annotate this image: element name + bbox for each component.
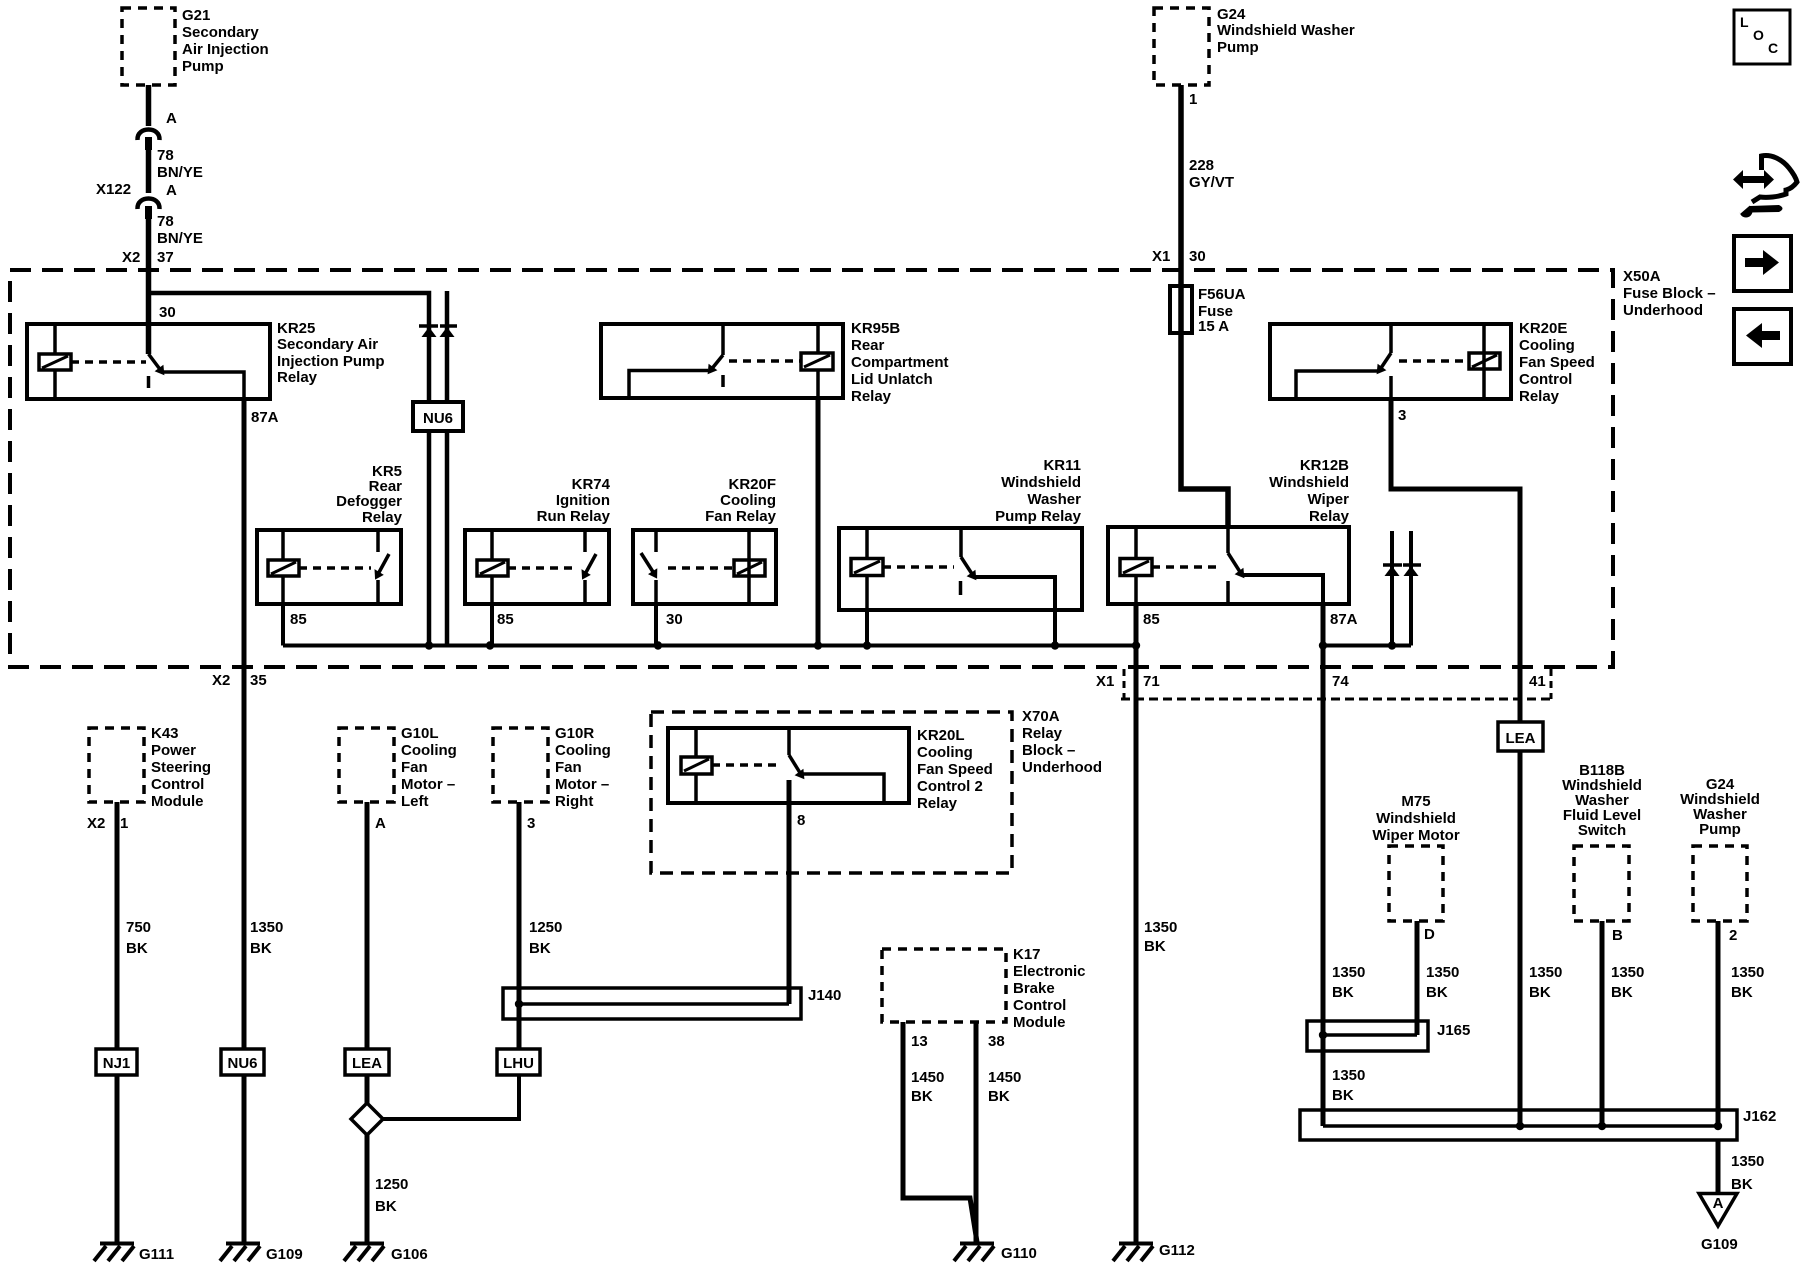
svg-text:BK: BK [1731,984,1753,1001]
wire G24 pump feed 228 GY/VT through fuse to KR12B [1181,85,1228,527]
svg-text:Fan Relay: Fan Relay [705,508,777,525]
svg-text:BK: BK [988,1088,1010,1105]
svg-text:Underhood: Underhood [1623,302,1703,319]
svg-text:Control: Control [151,776,204,793]
svg-text:BK: BK [1611,984,1633,1001]
ground G106 [344,1244,384,1262]
K17 Electronic Brake Control Module dashed box [882,949,1006,1022]
svg-text:1: 1 [120,815,128,832]
wire 78 BN/YE segment 3 into KR25 pin 30 [146,219,152,354]
wire fuse block bus [283,644,1136,648]
wire KR20E pin 3 to X1 41 through LEA to J162 [1391,399,1520,1126]
svg-text:Underhood: Underhood [1022,759,1102,776]
ground G111 [94,1244,134,1262]
svg-text:Block –: Block – [1022,742,1075,759]
svg-text:35: 35 [250,672,267,689]
svg-text:BK: BK [375,1198,397,1215]
svg-text:J165: J165 [1437,1022,1470,1039]
K43 Power Steering Control Module dashed box [89,728,144,802]
svg-text:A: A [1713,1195,1724,1212]
svg-text:1350: 1350 [1731,1153,1764,1170]
svg-text:Cooling: Cooling [1519,337,1575,354]
relay KR25 Secondary Air Injection Pump Relay [27,324,270,399]
svg-text:BK: BK [250,940,272,957]
wire G21 feed 78 BN/YE segment 1 [146,85,152,126]
X1 connector sub-box dashes [1121,698,1554,701]
wire splice arrow line 2 [1409,531,1413,646]
svg-text:Wiper Motor: Wiper Motor [1372,827,1460,844]
svg-text:Pump: Pump [182,58,224,75]
svg-text:J140: J140 [808,987,841,1004]
wire KR25 87A output to G109 ground [242,399,247,1242]
svg-text:Relay: Relay [1519,388,1560,405]
svg-text:71: 71 [1143,673,1160,690]
svg-text:KR74: KR74 [572,476,611,493]
RELAYS [27,324,1511,803]
svg-text:30: 30 [666,611,683,628]
svg-text:BK: BK [1332,984,1354,1001]
svg-text:KR25: KR25 [277,320,315,337]
svg-text:1350: 1350 [250,919,283,936]
splice arrows right of KR12B [1383,565,1421,576]
svg-text:1250: 1250 [529,919,562,936]
svg-text:Wiper: Wiper [1307,491,1349,508]
splice LEA label box lower [345,1049,389,1075]
B118B Windshield Washer Fluid Level Switch dashed box [1574,846,1629,921]
svg-text:87A: 87A [251,409,279,426]
svg-text:D: D [1424,926,1435,943]
svg-text:A: A [166,110,177,127]
svg-text:30: 30 [159,304,176,321]
svg-text:15 A: 15 A [1198,318,1229,335]
svg-text:1350: 1350 [1611,964,1644,981]
svg-text:G106: G106 [391,1246,428,1263]
svg-text:G10L: G10L [401,725,439,742]
svg-text:Compartment: Compartment [851,354,949,371]
svg-text:LHU: LHU [503,1055,534,1072]
svg-text:Brake: Brake [1013,980,1055,997]
svg-text:Fuse Block –: Fuse Block – [1623,285,1716,302]
svg-text:G111: G111 [139,1246,174,1263]
wire 87A branch to splice arrows [1323,644,1411,648]
BORDERS [10,8,1747,1022]
junction dot J140 [515,1000,523,1008]
connector J162 [1300,1110,1737,1140]
wire G10L pin A to diamond splice [365,802,370,1104]
svg-text:Cooling: Cooling [720,492,776,509]
wire KR74 85 pin [490,604,494,646]
svg-text:BK: BK [1144,938,1166,955]
svg-text:Power: Power [151,742,196,759]
svg-text:KR20E: KR20E [1519,320,1567,337]
svg-text:BK: BK [1332,1087,1354,1104]
svg-text:Injection Pump: Injection Pump [277,353,385,370]
svg-text:X122: X122 [96,181,131,198]
svg-text:L: L [1740,14,1749,30]
X70A Relay Block Underhood dashed border [651,712,1012,873]
svg-text:74: 74 [1332,673,1349,690]
svg-text:G109: G109 [1701,1236,1738,1253]
wire G10R pin 3 through J140 to LHU [517,802,522,1075]
relay KR20F Cooling Fan Relay [633,530,776,604]
ground G110 [954,1244,994,1262]
splice NJ1 label box [96,1049,137,1075]
svg-text:G109: G109 [266,1246,303,1263]
svg-text:KR20F: KR20F [728,476,776,493]
svg-text:Air Injection: Air Injection [182,41,269,58]
svg-text:1350: 1350 [1426,964,1459,981]
wire splice arrow line 1 [1390,531,1394,646]
G10L Cooling Fan Motor Left dashed box [339,728,394,802]
svg-text:85: 85 [1143,611,1160,628]
wire KR95B coil pin to bus [816,398,821,646]
wire K17 pin 38 1450 BK to G110 [974,1022,979,1242]
svg-text:Fan Speed: Fan Speed [1519,354,1595,371]
svg-text:LEA: LEA [1506,730,1536,747]
svg-text:Windshield: Windshield [1001,474,1081,491]
service info icon (arrow hand wrench) [1733,156,1797,218]
svg-text:NU6: NU6 [423,410,453,427]
svg-text:A: A [375,815,386,832]
svg-text:Windshield Washer: Windshield Washer [1217,22,1355,39]
splice NU6 label box [413,402,463,431]
svg-text:LEA: LEA [352,1055,382,1072]
ICONS [1733,10,1797,364]
svg-text:X50A: X50A [1623,268,1661,285]
svg-text:Electronic: Electronic [1013,963,1086,980]
svg-text:BK: BK [911,1088,933,1105]
svg-text:G24: G24 [1217,6,1246,23]
svg-text:Motor –: Motor – [401,776,455,793]
wire KR20F 30 pin [654,604,658,646]
svg-text:1350: 1350 [1731,964,1764,981]
wire KR11 switch output to bus [1053,610,1057,646]
svg-text:78: 78 [157,213,174,230]
junction dot J165 [1319,1031,1327,1039]
svg-text:Windshield: Windshield [1269,474,1349,491]
junction dots J162 [1516,1122,1524,1130]
relay KR11 Windshield Washer Pump Relay [839,528,1082,610]
svg-text:41: 41 [1529,673,1546,690]
wire K43 750 BK to G111 ground [115,802,120,1242]
svg-text:X1: X1 [1152,248,1170,265]
svg-text:Pump: Pump [1217,39,1259,56]
wire top bus to NU6 lines [149,293,430,646]
svg-text:Right: Right [555,793,593,810]
svg-text:3: 3 [527,815,535,832]
svg-text:Left: Left [401,793,429,810]
svg-text:X2: X2 [122,249,140,266]
wire 78 BN/YE segment 2 [146,150,152,193]
svg-text:O: O [1753,27,1764,43]
svg-text:BK: BK [1426,984,1448,1001]
svg-text:KR20L: KR20L [917,727,965,744]
CONNECTORS [96,286,1737,1140]
wire KR20L pin 8 down to J140 [787,780,792,1004]
svg-text:BK: BK [529,940,551,957]
svg-text:K43: K43 [151,725,179,742]
svg-text:BN/YE: BN/YE [157,164,203,181]
svg-text:X70A: X70A [1022,708,1060,725]
svg-text:X2: X2 [212,672,230,689]
svg-text:1350: 1350 [1332,1067,1365,1084]
svg-text:1450: 1450 [988,1069,1021,1086]
svg-text:BK: BK [1529,984,1551,1001]
svg-text:228: 228 [1189,157,1214,174]
connector J140 [503,988,801,1019]
svg-text:M75: M75 [1401,793,1430,810]
svg-text:85: 85 [497,611,514,628]
svg-text:Relay: Relay [362,509,403,526]
G10R Cooling Fan Motor Right dashed box [493,728,548,802]
svg-text:KR11: KR11 [1043,457,1081,474]
svg-text:Rear: Rear [851,337,885,354]
svg-text:BN/YE: BN/YE [157,230,203,247]
svg-text:Switch: Switch [1578,822,1626,839]
svg-text:2: 2 [1729,927,1737,944]
ground G109 left [220,1244,260,1262]
svg-text:Pump: Pump [1699,821,1741,838]
relay KR74 Ignition Run Relay [465,530,609,604]
svg-text:C: C [1768,40,1778,56]
svg-text:B: B [1612,927,1623,944]
LOC box icon [1734,10,1790,64]
svg-text:Control: Control [1519,371,1572,388]
svg-text:G10R: G10R [555,725,594,742]
svg-text:F56UA: F56UA [1198,286,1246,303]
connector X122 lower arc A [137,199,159,210]
M75 Windshield Wiper Motor dashed box [1389,846,1443,921]
svg-text:K17: K17 [1013,946,1041,963]
svg-text:Module: Module [1013,1014,1066,1031]
svg-text:X1: X1 [1096,673,1114,690]
svg-text:G21: G21 [182,7,210,24]
ground G109 triangle (bottom right) [1699,1194,1737,1227]
svg-text:G112: G112 [1159,1242,1195,1259]
svg-text:Lid Unlatch: Lid Unlatch [851,371,933,388]
svg-text:Fan: Fan [401,759,428,776]
svg-text:Relay: Relay [917,795,958,812]
svg-text:GY/VT: GY/VT [1189,174,1234,191]
svg-text:Pump Relay: Pump Relay [995,508,1082,525]
svg-text:KR12B: KR12B [1300,457,1349,474]
svg-text:1350: 1350 [1529,964,1562,981]
svg-text:78: 78 [157,147,174,164]
wire branch diamond to LHU [382,1075,519,1119]
svg-text:BK: BK [126,940,148,957]
svg-text:Washer: Washer [1027,491,1081,508]
svg-text:Relay: Relay [851,388,892,405]
relay KR5 Rear Defogger Relay [257,530,401,604]
diamond splice below LEA [351,1103,383,1135]
svg-text:Control 2: Control 2 [917,778,983,795]
svg-text:Defogger: Defogger [336,493,402,510]
G24 Windshield Washer Pump dashed box (top) [1154,8,1209,85]
wire B118B pin B to J162 [1600,921,1605,1126]
splice LEA label box upper [1498,722,1543,751]
svg-text:3: 3 [1398,407,1406,424]
svg-text:1350: 1350 [1144,919,1177,936]
svg-text:Motor –: Motor – [555,776,609,793]
svg-text:Relay: Relay [1309,508,1350,525]
splice arrows above NU6 [419,326,457,337]
svg-text:J162: J162 [1743,1108,1776,1125]
svg-text:BK: BK [1731,1176,1753,1193]
wire G24 pin 2 to J162 [1716,921,1721,1126]
svg-text:Cooling: Cooling [401,742,457,759]
wire KR5 85 pin [281,604,285,646]
relay KR20L Cooling Fan Speed Control 2 Relay [668,728,909,803]
G24 Windshield Washer Pump dashed box (bottom) [1693,846,1747,921]
svg-text:Relay: Relay [1022,725,1063,742]
svg-text:X2: X2 [87,815,105,832]
svg-text:85: 85 [290,611,307,628]
wire second NU6 line [445,291,450,646]
ground G112 [1113,1244,1153,1262]
svg-text:Ignition: Ignition [556,492,610,509]
svg-text:Cooling: Cooling [555,742,611,759]
svg-text:1250: 1250 [375,1176,408,1193]
wire KR12B 87A pin down to J162 [1321,604,1326,1126]
svg-text:NU6: NU6 [227,1055,257,1072]
junction dots on fuse block bus [425,641,433,649]
svg-text:Secondary: Secondary [182,24,259,41]
relay KR95B Rear Compartment Lid Unlatch Relay [601,324,843,398]
svg-text:Run Relay: Run Relay [537,508,611,525]
relay KR12B Windshield Wiper Relay [1108,527,1349,604]
svg-text:30: 30 [1189,248,1206,265]
svg-text:Fan Speed: Fan Speed [917,761,993,778]
svg-text:87A: 87A [1330,611,1358,628]
fuse F56UA 15 A [1170,286,1192,333]
relay KR20E Cooling Fan Speed Control Relay [1270,324,1511,399]
wire KR12B 85 pin down to G112 ground [1134,604,1139,1242]
wire J162 to G109 triangle ground [1716,1140,1721,1194]
svg-text:Fan: Fan [555,759,582,776]
wire K17 pin 13 1450 BK to G110 [903,1022,977,1242]
svg-text:13: 13 [911,1033,928,1050]
svg-text:Steering: Steering [151,759,211,776]
svg-text:1: 1 [1189,91,1197,108]
splice LHU label box [497,1049,540,1075]
svg-text:Secondary Air: Secondary Air [277,336,378,353]
X50A Fuse Block Underhood dashed border [10,270,1613,667]
svg-text:Control: Control [1013,997,1066,1014]
svg-text:8: 8 [797,812,805,829]
wire KR11 85 pin [865,610,869,646]
svg-text:Relay: Relay [277,369,318,386]
junction dot KR12B 87A branch [1319,641,1327,649]
svg-text:38: 38 [988,1033,1005,1050]
splice NU6 label box lower [221,1049,264,1075]
svg-text:Cooling: Cooling [917,744,973,761]
connector X122 upper arc A [137,130,159,141]
wire diamond splice to G106 ground [365,1134,370,1242]
connector J165 [1307,1021,1428,1051]
G21 Secondary Air Injection Pump dashed box [122,8,175,85]
svg-text:750: 750 [126,919,151,936]
svg-text:1350: 1350 [1332,964,1365,981]
svg-text:Module: Module [151,793,204,810]
svg-text:1450: 1450 [911,1069,944,1086]
right arrow icon box [1734,236,1791,291]
svg-text:KR95B: KR95B [851,320,900,337]
svg-text:Windshield: Windshield [1376,810,1456,827]
left arrow icon box [1734,309,1791,364]
wire M75 pin D to J165 [1415,921,1420,1035]
svg-text:NJ1: NJ1 [103,1055,131,1072]
svg-text:37: 37 [157,249,174,266]
svg-text:A: A [166,182,177,199]
svg-text:G110: G110 [1001,1245,1037,1262]
